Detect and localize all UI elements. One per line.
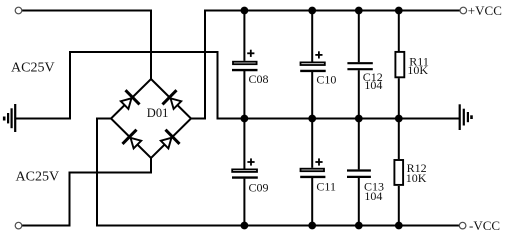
svg-text:C08: C08 [249, 72, 269, 86]
resistor R11 leads [398, 11, 400, 119]
junction dots top rail [241, 7, 403, 15]
capacitor C08 plates [233, 62, 257, 64]
resistor R12 body [394, 160, 403, 185]
ground symbol left [4, 104, 15, 132]
svg-text:10K: 10K [407, 63, 428, 77]
wire +VCC rail: bridge right vertex up and right to +VCC [191, 11, 460, 119]
wire ground net: left ground up over bridge down to mid rail to right ground [16, 52, 460, 119]
terminal +VCC [460, 7, 467, 14]
diode D01 bottom-right (anode bottom vertex, cathode right vertex) [158, 129, 181, 152]
capacitor C12 plates [347, 63, 372, 69]
diode D01 top-right (anode right vertex, cathode top vertex) [161, 89, 184, 112]
svg-text:AC25V: AC25V [11, 61, 55, 76]
capacitor C09 polarity + [247, 158, 254, 165]
diode D01 top-left (anode left vertex, cathode top vertex) [118, 89, 141, 112]
svg-text:+VCC: +VCC [468, 3, 502, 18]
terminal AC2 bottom-left [15, 222, 22, 229]
svg-text:104: 104 [364, 189, 382, 203]
svg-text:-VCC: -VCC [469, 218, 500, 233]
wire AC1: top-left terminal to bridge top vertex [19, 11, 151, 80]
capacitor C08 leads [243, 11, 245, 119]
bridge rectifier D01 diamond [111, 79, 191, 158]
capacitor C10 plates [301, 62, 325, 65]
svg-text:AC25V: AC25V [16, 170, 60, 185]
capacitor C12 leads [358, 11, 360, 119]
junction dots bottom rail [241, 222, 403, 230]
diode D01 bottom-left (anode bottom vertex, cathode left vertex) [121, 129, 144, 152]
capacitor C11 leads [311, 119, 313, 226]
svg-text:10K: 10K [406, 171, 427, 185]
capacitor C10 polarity + [315, 51, 322, 58]
svg-text:C10: C10 [316, 73, 336, 87]
wire -VCC rail: bridge left vertex down and right to -VCC [97, 119, 460, 226]
resistor R12 leads [398, 119, 400, 226]
capacitor C13 leads [358, 119, 360, 226]
resistor R11 body [395, 52, 404, 77]
capacitor C13 plates [347, 171, 371, 177]
capacitor C10 leads [311, 11, 313, 119]
svg-text:C09: C09 [249, 181, 269, 195]
capacitor C09 leads [243, 119, 245, 226]
terminal -VCC [459, 222, 466, 229]
ground symbol right [460, 104, 472, 130]
capacitor C11 plates [301, 169, 325, 172]
svg-text:104: 104 [364, 78, 382, 92]
junction dots mid ground rail [241, 115, 403, 123]
capacitor C11 polarity + [315, 158, 322, 165]
capacitor C09 plates [232, 169, 257, 172]
capacitor C08 polarity + [247, 50, 254, 57]
svg-text:C11: C11 [316, 180, 336, 194]
svg-text:D01: D01 [147, 106, 169, 120]
wire AC2: bottom-left terminal to bridge bottom vertex [22, 158, 152, 226]
terminal AC1 top-left [15, 7, 22, 14]
